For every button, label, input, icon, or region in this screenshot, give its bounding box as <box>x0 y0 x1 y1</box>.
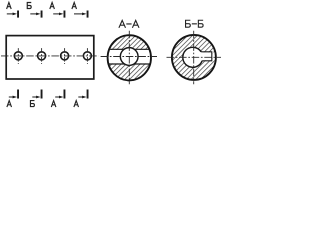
hole 3 <box>61 52 69 60</box>
center line vertical B-B <box>193 31 195 85</box>
section mark A bottom 4 <box>78 90 88 99</box>
label A top1 <box>7 2 12 9</box>
white sliver right of keyway end <box>212 52 215 60</box>
section mark B bottom 2 <box>32 90 42 99</box>
bore circle B-B with keyway opening <box>183 47 202 67</box>
label A top4 <box>72 2 77 9</box>
slot white band A-A <box>106 50 153 63</box>
hole 2 vertical center line <box>41 48 43 64</box>
section mark A top 3 <box>53 11 65 18</box>
label A bottom1 <box>7 101 12 108</box>
keyway outline B-B <box>201 52 212 61</box>
center line vertical A-A <box>128 31 130 85</box>
keyway white B-B <box>193 52 212 60</box>
hatching A-A <box>107 34 152 81</box>
section title B-B <box>186 20 204 27</box>
section mark A bottom 3 <box>55 90 65 99</box>
hole 1 vertical center line <box>17 48 19 64</box>
section mark A bottom 1 <box>9 90 19 99</box>
hole 2 <box>38 52 46 60</box>
label B top2 <box>27 3 31 9</box>
hole 4 <box>83 52 91 60</box>
center line horizontal A-A <box>101 56 157 58</box>
section mark A top 4 <box>74 11 89 18</box>
section mark B top 2 <box>30 11 42 18</box>
outer circle B-B <box>172 35 216 80</box>
hatching B-B <box>171 34 217 81</box>
slot top edge line <box>106 48 153 50</box>
outer circle A-A <box>108 35 151 80</box>
section title A-A <box>119 20 139 27</box>
label A bottom4 <box>74 101 79 108</box>
section mark A top 1 <box>7 11 19 18</box>
label B bottom2 <box>30 101 34 107</box>
hole 4 vertical center line <box>86 48 88 64</box>
label A bottom3 <box>51 101 56 108</box>
label A top3 <box>50 2 55 9</box>
slot bottom edge line <box>106 63 153 65</box>
hole 1 <box>14 52 22 60</box>
wire: main horizontal center line of left view <box>1 55 99 57</box>
center line horizontal B-B <box>167 56 222 58</box>
hole 3 vertical center line <box>64 48 66 64</box>
bore circle A-A <box>120 48 138 66</box>
body outline rectangle <box>6 36 94 79</box>
